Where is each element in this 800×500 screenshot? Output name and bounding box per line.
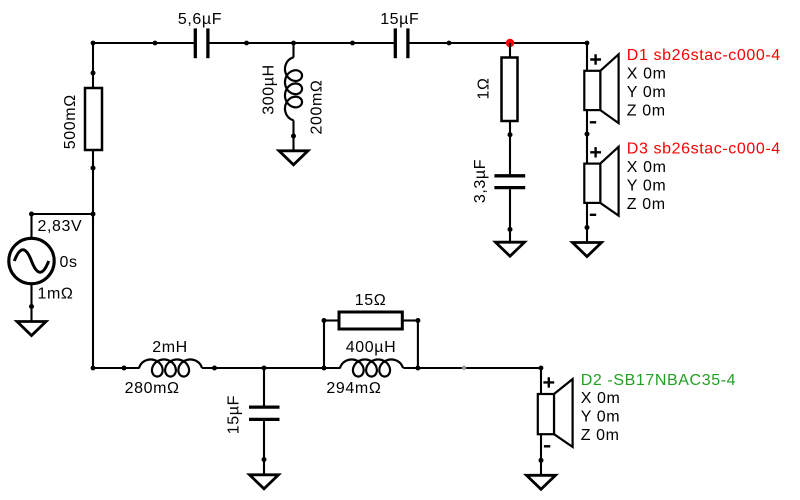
svg-text:X 0m: X 0m: [581, 390, 621, 407]
node dot rail e: [447, 41, 452, 46]
node dot below D3: [585, 225, 590, 230]
wire 300uH top stub: [292, 43, 294, 58]
svg-text:2mH: 2mH: [152, 339, 188, 356]
wire left vertical upper: [92, 43, 94, 89]
speaker D3: [584, 141, 781, 216]
svg-text:Z 0m: Z 0m: [581, 427, 620, 444]
wire top rail right: [409, 42, 588, 44]
node dot left junction: [91, 212, 96, 217]
node dot grey probe: [462, 366, 466, 370]
svg-text:Y 0m: Y 0m: [627, 84, 666, 101]
capacitor C 15uF top: [380, 11, 419, 58]
svg-text:1mΩ: 1mΩ: [38, 286, 74, 303]
speaker D2: [538, 372, 736, 447]
svg-text:0s: 0s: [60, 254, 78, 271]
inductor 2mH: [125, 339, 202, 397]
wire bottom rail middle: [202, 367, 341, 369]
resistor 1Ohm: [476, 58, 518, 122]
wire red node to 1ohm: [509, 43, 511, 58]
resistor 15Ohm: [339, 292, 402, 329]
wire between D1 and D3: [586, 110, 588, 164]
ground 3,3uF: [496, 242, 525, 256]
node dot below resistor: [91, 166, 96, 171]
node dot below cap 15uF: [262, 457, 267, 462]
ground 15uF: [250, 475, 279, 489]
svg-text:300µH: 300µH: [261, 64, 278, 114]
ground D3: [573, 243, 602, 257]
node dot top-left corner: [91, 41, 96, 46]
wire source top horizontal: [32, 213, 94, 215]
wire below cap 3,3uF: [509, 189, 511, 242]
node dot below 1ohm: [508, 132, 513, 137]
node dot rail a: [153, 41, 158, 46]
wire bottom rail left: [93, 367, 140, 369]
wire parallel left vertical: [323, 321, 325, 369]
svg-text:294mΩ: 294mΩ: [326, 380, 381, 397]
speaker D1: [584, 47, 781, 123]
ground source: [17, 322, 46, 336]
ground D2: [527, 475, 556, 489]
svg-text:3,3µF: 3,3µF: [472, 159, 489, 203]
wire top rail middle: [209, 42, 394, 44]
node dot above resistor: [91, 71, 96, 76]
capacitor 3,3uF: [472, 159, 525, 203]
node dot top-right corner: [585, 41, 590, 46]
source V1: [9, 218, 83, 303]
node dot bottom-right corner: [539, 366, 544, 371]
inductor 300uH: [261, 57, 326, 134]
node dot parallel right top: [415, 318, 420, 323]
wire below D2: [540, 434, 542, 475]
node dot before 2mH: [122, 366, 127, 371]
node dot rail c inductor junction: [291, 41, 296, 46]
wire tweeter branch top: [586, 43, 588, 71]
wire below cap 15uF: [263, 421, 265, 475]
node dot parallel left bottom: [322, 366, 327, 371]
svg-text:Z 0m: Z 0m: [627, 102, 666, 119]
wire left vertical lower: [92, 150, 94, 368]
node dot below D2: [539, 458, 544, 463]
svg-text:15Ω: 15Ω: [355, 292, 387, 309]
wire top rail left: [93, 42, 194, 44]
wire source bottom: [30, 284, 32, 322]
wire parallel top left: [324, 319, 340, 321]
node dot source bottom: [29, 304, 34, 309]
svg-text:1Ω: 1Ω: [476, 77, 493, 99]
wire 1ohm to cap 3,3uF: [509, 121, 511, 174]
svg-text:200mΩ: 200mΩ: [309, 80, 326, 135]
wire parallel top right: [402, 319, 418, 321]
capacitor C 5,6uF: [178, 11, 222, 58]
node dot bottom-left corner: [91, 366, 96, 371]
svg-text:D3 sb26stac-c000-4: D3 sb26stac-c000-4: [627, 141, 781, 158]
node dot rail d: [350, 41, 355, 46]
wire source to circle: [30, 214, 32, 240]
wire below D3: [586, 203, 588, 243]
svg-text:2,83V: 2,83V: [38, 218, 83, 235]
svg-text:15µF: 15µF: [226, 395, 243, 434]
svg-text:D1 sb26stac-c000-4: D1 sb26stac-c000-4: [627, 47, 781, 64]
wire bottom rail right: [403, 367, 541, 369]
node dot after 2mH: [212, 366, 217, 371]
node dot parallel right bottom: [415, 366, 420, 371]
node red: [506, 39, 514, 47]
node dot source top: [29, 212, 34, 217]
node dot below cap 3,3uF: [508, 227, 513, 232]
svg-text:X 0m: X 0m: [627, 66, 667, 83]
svg-text:500mΩ: 500mΩ: [62, 94, 79, 149]
svg-text:15µF: 15µF: [380, 11, 419, 28]
resistor 500mOhm: [62, 88, 102, 150]
wire 300uH bottom stub: [292, 120, 294, 151]
svg-text:Z 0m: Z 0m: [627, 196, 666, 213]
node dot parallel left top: [322, 318, 327, 323]
svg-text:X 0m: X 0m: [627, 159, 667, 176]
node dot between D1 D3: [585, 132, 590, 137]
inductor 400uH: [326, 339, 403, 397]
wire D2 branch top: [540, 368, 542, 394]
wire cap 15uF branch: [263, 368, 265, 406]
node dot cap junction: [262, 366, 267, 371]
wire parallel right vertical: [417, 321, 419, 369]
capacitor 15uF bottom: [226, 395, 280, 434]
svg-text:Y 0m: Y 0m: [581, 409, 620, 426]
svg-text:Y 0m: Y 0m: [627, 177, 666, 194]
svg-text:D2 -SB17NBAC35-4: D2 -SB17NBAC35-4: [581, 372, 736, 389]
svg-text:280mΩ: 280mΩ: [125, 380, 180, 397]
node dot 300uH bottom: [291, 134, 296, 139]
svg-text:5,6µF: 5,6µF: [178, 11, 222, 28]
svg-text:400µH: 400µH: [346, 339, 396, 356]
node dot rail b: [244, 41, 249, 46]
ground 300uH: [279, 151, 308, 165]
